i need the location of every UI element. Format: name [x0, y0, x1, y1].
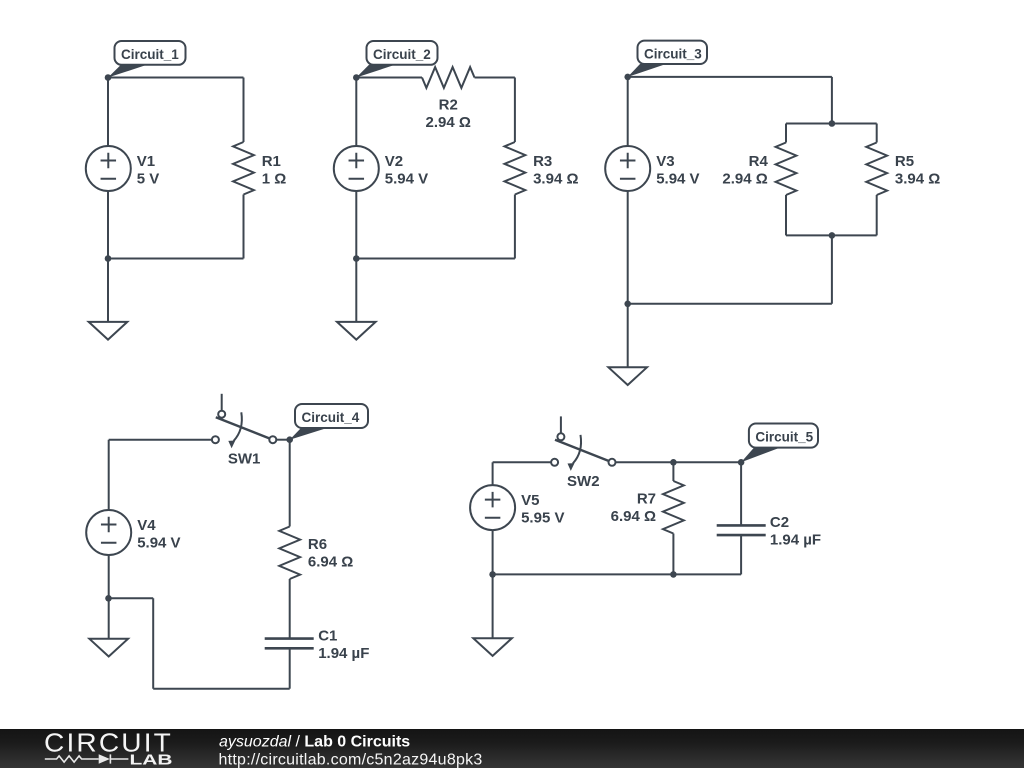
ground G1	[89, 322, 128, 340]
svg-text:Circuit_5: Circuit_5	[755, 429, 813, 444]
wire V1 bottom	[107, 191, 109, 259]
wire V3 top	[627, 77, 629, 146]
junction parallel top	[829, 120, 836, 127]
node (junction at SW1 output)	[286, 436, 293, 443]
voltage source V1	[86, 146, 131, 191]
callout label Circuit_1	[108, 41, 186, 78]
callout label Circuit_4	[290, 404, 368, 440]
svg-text:SW1: SW1	[228, 450, 261, 467]
wire up run	[152, 598, 154, 688]
wire V3 bottom	[627, 191, 629, 304]
wire to V4 bottom junction	[109, 597, 154, 599]
wire bottom	[356, 258, 515, 260]
junction parallel bottom	[829, 232, 836, 239]
wire to ground	[355, 259, 357, 322]
ground G5	[473, 638, 512, 656]
wire right column upper	[243, 78, 245, 143]
wire R5 top stub	[876, 124, 878, 143]
wire R7 bottom stub	[672, 534, 674, 575]
node (junction at C2 top)	[738, 459, 745, 466]
voltage source V5	[470, 485, 515, 530]
switch SW1	[216, 394, 273, 441]
resistor R1	[233, 142, 254, 195]
wire top	[628, 76, 832, 78]
svg-text:Circuit_4: Circuit_4	[302, 410, 360, 425]
junction R7 top	[670, 459, 677, 466]
CircuitLab logo schematic squiggle (resistor + diode)	[45, 754, 129, 763]
svg-text:LAB: LAB	[130, 752, 173, 768]
wire C1 bottom down	[289, 648, 291, 688]
junction bottom-left	[105, 255, 112, 262]
wire R5 bottom stub	[876, 195, 878, 235]
voltage source V3	[605, 146, 650, 191]
wire SW1 right to node	[276, 439, 289, 441]
resistor R2	[422, 67, 475, 88]
wire parallel top bar	[786, 123, 877, 125]
wire bottom run	[493, 573, 741, 575]
wire V5 to SW2 left	[493, 461, 551, 463]
wire V2 top	[355, 78, 357, 147]
wire node down to R6	[289, 440, 291, 527]
wire V4 top	[108, 440, 110, 510]
wire V2 bottom	[355, 191, 357, 259]
resistor R3	[505, 142, 526, 195]
wire SW2 right to node	[616, 461, 742, 463]
capacitor C1	[265, 639, 314, 649]
wire V1 top	[107, 78, 109, 147]
junction V5 bottom	[489, 571, 496, 578]
resistor R5	[866, 143, 887, 196]
wire to ground	[627, 304, 629, 368]
wire bottom	[108, 258, 244, 260]
wire R7 top stub	[672, 462, 674, 481]
wire top-right	[475, 77, 515, 79]
ground G2	[337, 322, 376, 340]
wire parallel bottom bar	[786, 234, 877, 236]
wire V5 top	[492, 462, 494, 485]
junction bottom-left	[353, 255, 360, 262]
wire top (node to R1)	[108, 77, 244, 79]
wire R4 bottom stub	[785, 195, 787, 235]
wire V4 bottom to ground	[108, 555, 110, 639]
node top-left (junction)	[105, 74, 112, 81]
svg-text:Circuit_3: Circuit_3	[644, 46, 702, 61]
wire top-left (node to R2)	[356, 77, 422, 79]
switch SW2	[555, 416, 612, 463]
junction bottom-left	[624, 301, 631, 308]
capacitor C2	[717, 525, 766, 535]
wire right column lower	[243, 195, 245, 259]
callout label Circuit_5	[741, 424, 818, 463]
node top-left (junction)	[624, 74, 631, 81]
callout label Circuit_3	[628, 41, 707, 77]
wire node down to C2	[740, 462, 742, 525]
voltage source V2	[334, 146, 379, 191]
svg-text:Circuit_1: Circuit_1	[121, 47, 179, 62]
svg-text:SW2: SW2	[567, 473, 600, 490]
resistor R4	[776, 143, 797, 196]
junction R7 bottom	[670, 571, 677, 578]
wire down right	[831, 235, 833, 303]
ground G3	[608, 367, 647, 385]
wire bottom	[628, 303, 832, 305]
wire V5 bottom to ground	[492, 530, 494, 638]
wire bottom run	[153, 688, 290, 690]
wire V4 to SW1 left	[109, 439, 212, 441]
ground G4	[89, 639, 128, 657]
wire down to parallel pair	[831, 77, 833, 124]
wire to ground	[107, 259, 109, 322]
wire R6 to C1	[289, 579, 291, 638]
junction V4 bottom	[105, 595, 112, 602]
wire right column upper	[514, 78, 516, 143]
callout label Circuit_2	[356, 41, 437, 78]
footer bar background	[0, 729, 1024, 768]
svg-text:aysuozdal / Lab 0 Circuits: aysuozdal / Lab 0 Circuits	[219, 733, 410, 750]
svg-text:R2: R2	[439, 97, 458, 114]
wire C2 bottom down	[740, 535, 742, 574]
voltage source V4	[86, 510, 131, 555]
svg-text:http://circuitlab.com/c5n2az94: http://circuitlab.com/c5n2az94u8pk3	[219, 751, 483, 768]
svg-text:2.94 Ω: 2.94 Ω	[426, 114, 471, 131]
svg-text:Circuit_2: Circuit_2	[373, 47, 431, 62]
wire right column lower	[514, 195, 516, 259]
wire R4 top stub	[785, 124, 787, 143]
node top-left (junction)	[353, 74, 360, 81]
resistor R7	[663, 481, 684, 534]
resistor R6	[279, 527, 300, 580]
